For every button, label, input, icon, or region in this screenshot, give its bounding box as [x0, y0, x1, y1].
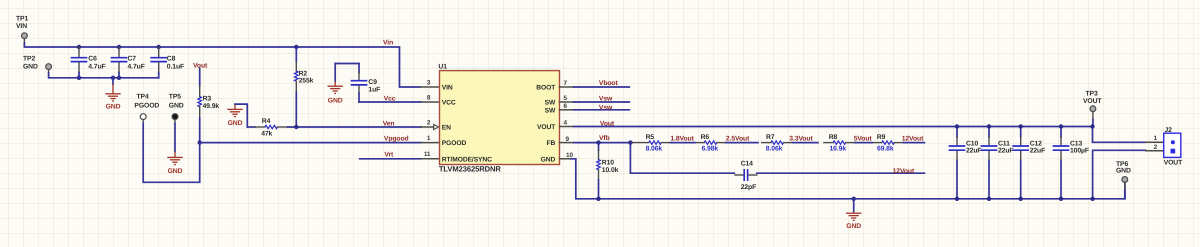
- svg-text:R4: R4: [262, 118, 271, 125]
- capacitor C10: [956, 127, 958, 138]
- svg-text:RT/MODE/SYNC: RT/MODE/SYNC: [442, 156, 492, 163]
- junction GND-R10: [596, 197, 600, 201]
- svg-text:Vfb: Vfb: [599, 135, 610, 142]
- wire TP6 to GND rail: [1124, 191, 1126, 199]
- svg-text:VCC: VCC: [442, 100, 456, 107]
- resistor R8: [824, 142, 833, 144]
- pin 11 stub RT: [421, 158, 440, 160]
- ground (input rail): [105, 84, 120, 101]
- svg-text:J2: J2: [1165, 127, 1173, 134]
- svg-text:10.0k: 10.0k: [602, 167, 619, 174]
- svg-text:TP2: TP2: [23, 55, 35, 62]
- svg-text:GND: GND: [328, 98, 343, 105]
- svg-text:Vsw: Vsw: [599, 104, 613, 111]
- svg-text:FB: FB: [546, 140, 555, 147]
- svg-text:1.8Vout: 1.8Vout: [670, 135, 694, 142]
- wire C14 to 12Vout: [757, 172, 925, 174]
- svg-text:Vboot: Vboot: [599, 80, 619, 87]
- svg-text:69.8k: 69.8k: [877, 145, 894, 152]
- resistor R5: [631, 142, 649, 144]
- capacitor C13: [1060, 127, 1062, 138]
- test point TP2: [46, 64, 52, 70]
- svg-text:GND: GND: [106, 104, 121, 111]
- pin 8 stub VCC: [421, 101, 440, 103]
- connector J2: [1164, 133, 1181, 157]
- svg-text:R6: R6: [701, 134, 710, 141]
- resistor R6: [695, 142, 704, 144]
- wire FB net: [574, 142, 632, 144]
- svg-text:2.5Vout: 2.5Vout: [726, 135, 750, 142]
- junction FB-R10: [596, 140, 600, 144]
- capacitor C6: [78, 47, 80, 57]
- svg-text:8: 8: [427, 94, 431, 101]
- pin 10 stub GND: [560, 158, 572, 160]
- wire Vout rail: [574, 127, 1146, 143]
- wire FB to C14: [630, 143, 734, 174]
- pin 2 input glyph: [434, 124, 439, 129]
- svg-text:Vout: Vout: [600, 120, 615, 127]
- test point TP1: [22, 33, 28, 39]
- junction FB-C14: [628, 140, 632, 144]
- junction GND rail - ground symbol: [852, 197, 856, 201]
- svg-text:VOUT: VOUT: [1164, 160, 1183, 167]
- svg-text:1: 1: [427, 135, 431, 142]
- wire PGOOD net: [200, 142, 421, 144]
- svg-text:2: 2: [1154, 144, 1158, 151]
- svg-text:C6: C6: [88, 55, 97, 62]
- svg-text:VOUT: VOUT: [1083, 98, 1102, 105]
- wire Vout to R3: [199, 68, 201, 86]
- svg-text:5Vout: 5Vout: [854, 135, 873, 142]
- svg-text:R3: R3: [203, 96, 212, 103]
- svg-text:6.98k: 6.98k: [702, 145, 719, 152]
- svg-text:22pF: 22pF: [741, 184, 756, 191]
- capacitor C14: [735, 174, 743, 176]
- svg-text:49.9k: 49.9k: [203, 103, 220, 110]
- pin 2 stub EN: [421, 126, 434, 128]
- svg-text:22uF: 22uF: [1030, 148, 1045, 155]
- svg-text:PGOOD: PGOOD: [134, 103, 159, 110]
- svg-text:C7: C7: [128, 55, 137, 62]
- svg-text:GND: GND: [541, 156, 556, 163]
- svg-text:5: 5: [564, 95, 568, 102]
- wire TP4 lead: [142, 120, 144, 124]
- junction Vout-TP3: [1090, 124, 1094, 128]
- wire J2 pin2 to GND rail: [1093, 150, 1146, 199]
- svg-text:Vrt: Vrt: [384, 151, 394, 158]
- resistor R7: [762, 142, 771, 144]
- svg-text:BOOT: BOOT: [536, 85, 556, 92]
- junction VIN-R2: [294, 45, 298, 49]
- svg-text:R5: R5: [646, 134, 655, 141]
- svg-text:8.06k: 8.06k: [766, 145, 783, 152]
- svg-text:EN: EN: [442, 125, 451, 132]
- svg-text:R10: R10: [602, 159, 614, 166]
- test point TP4: [140, 114, 146, 120]
- svg-text:8.06k: 8.06k: [646, 145, 663, 152]
- svg-text:16.9k: 16.9k: [830, 145, 847, 152]
- junction GND-C6: [77, 76, 81, 80]
- wire Vsw (6): [574, 109, 630, 111]
- test point TP5: [172, 114, 178, 120]
- svg-text:255k: 255k: [299, 78, 314, 85]
- pin 4 stub VOUT: [560, 126, 574, 128]
- svg-text:TP3: TP3: [1086, 90, 1098, 97]
- svg-text:0.1uF: 0.1uF: [167, 63, 184, 70]
- svg-text:3.3Vout: 3.3Vout: [789, 135, 813, 142]
- capacitor C12: [1020, 127, 1022, 138]
- wire TP4 to PGOOD node: [143, 124, 200, 183]
- ground (R4): [227, 104, 242, 117]
- resistor R4: [247, 126, 255, 128]
- wire VIN rail: [24, 43, 420, 87]
- wire ground stem (input): [112, 78, 114, 84]
- svg-text:1: 1: [1154, 135, 1158, 142]
- svg-text:GND: GND: [1116, 168, 1131, 175]
- op-amp U1 TLVM23625RDNR body: [440, 71, 560, 165]
- svg-text:C8: C8: [167, 55, 176, 62]
- svg-text:C11: C11: [998, 140, 1010, 147]
- svg-text:Vin: Vin: [383, 39, 393, 46]
- capacitor C8: [158, 47, 160, 57]
- svg-text:C14: C14: [741, 161, 753, 168]
- pin 1 stub PGOOD: [421, 142, 440, 144]
- pin 7 stub BOOT: [560, 86, 574, 88]
- svg-text:6: 6: [564, 103, 568, 110]
- wire RT net: [360, 158, 421, 160]
- resistor R3: [198, 97, 202, 107]
- ground (C9): [328, 81, 343, 93]
- svg-text:TLVM23625RDNR: TLVM23625RDNR: [439, 165, 501, 174]
- wire 5Vout: [855, 142, 872, 144]
- test point TP3: [1090, 106, 1096, 112]
- svg-text:TP5: TP5: [169, 94, 181, 101]
- ground (output rail): [846, 212, 861, 221]
- wire TP5 to ground: [174, 124, 176, 152]
- junction GND-C7: [117, 76, 121, 80]
- wire EN net: [288, 126, 421, 128]
- svg-text:12Vout: 12Vout: [902, 135, 924, 142]
- svg-text:GND: GND: [23, 63, 38, 70]
- svg-text:4.7uF: 4.7uF: [128, 63, 145, 70]
- svg-text:R8: R8: [829, 134, 838, 141]
- svg-text:11: 11: [424, 151, 431, 158]
- svg-text:U1: U1: [438, 64, 447, 71]
- wire input GND rail: [49, 73, 159, 78]
- wire 2.5Vout: [726, 142, 758, 144]
- svg-text:TP4: TP4: [137, 94, 149, 101]
- junction VIN-C6: [77, 45, 81, 49]
- wire 3.3Vout: [793, 142, 818, 144]
- pin 3 stub VIN: [420, 86, 440, 88]
- junction EN-R2: [294, 125, 298, 129]
- wire TP6 lead: [1124, 182, 1126, 190]
- svg-text:GND: GND: [228, 120, 243, 127]
- svg-text:R7: R7: [766, 134, 775, 141]
- wire TP5 lead: [174, 120, 176, 124]
- resistor R2: [295, 47, 297, 62]
- pin 1 stub J2: [1146, 141, 1164, 143]
- wire Vboot: [574, 86, 630, 88]
- svg-text:Vsw: Vsw: [599, 95, 613, 102]
- wire TP1 lead: [23, 39, 25, 43]
- svg-text:7: 7: [564, 80, 568, 87]
- wire ground stem (output): [853, 199, 855, 212]
- wire 1.8Vout: [671, 142, 696, 144]
- wire Vsw (5): [574, 101, 630, 103]
- wire VCC net: [358, 93, 360, 102]
- capacitor C9: [358, 73, 360, 80]
- svg-text:VOUT: VOUT: [537, 124, 556, 131]
- capacitor C11: [988, 127, 990, 138]
- svg-text:VIN: VIN: [16, 23, 27, 30]
- svg-text:Vpgood: Vpgood: [384, 136, 409, 143]
- pin 9 stub FB: [560, 142, 574, 144]
- wire R4 ground L: [235, 104, 247, 127]
- svg-text:9: 9: [566, 136, 570, 143]
- pin 2 stub J2: [1146, 150, 1164, 152]
- svg-text:3: 3: [427, 79, 431, 86]
- svg-text:Vcc: Vcc: [384, 96, 396, 103]
- resistor R9: [873, 142, 882, 144]
- svg-text:22uF: 22uF: [966, 148, 981, 155]
- svg-text:TP1: TP1: [16, 16, 28, 23]
- pin 6 stub SW: [560, 109, 574, 111]
- svg-text:C13: C13: [1070, 140, 1082, 147]
- wire TP3 to Vout rail: [1092, 120, 1094, 127]
- svg-text:GND: GND: [168, 168, 183, 175]
- svg-text:2: 2: [427, 119, 431, 126]
- svg-text:SW: SW: [545, 100, 556, 107]
- junction VIN-C7: [117, 45, 121, 49]
- svg-text:VIN: VIN: [442, 85, 453, 92]
- svg-text:4: 4: [564, 120, 568, 127]
- svg-text:Ven: Ven: [383, 120, 395, 127]
- junction GND-symbol: [111, 76, 115, 80]
- svg-text:R9: R9: [877, 134, 886, 141]
- svg-text:12Vout: 12Vout: [893, 168, 915, 175]
- wire C9 ground L: [358, 64, 360, 73]
- resistor R10: [598, 143, 600, 150]
- capacitor C7: [118, 47, 120, 57]
- wire GND bottom rail: [571, 159, 1125, 199]
- junction VIN-C8: [157, 45, 161, 49]
- svg-text:GND: GND: [169, 103, 184, 110]
- wire 12Vout (ladder end): [904, 142, 925, 144]
- svg-text:C9: C9: [368, 79, 377, 86]
- svg-text:1uF: 1uF: [368, 87, 380, 94]
- junction GND-J2: [1090, 197, 1094, 201]
- svg-text:C12: C12: [1030, 140, 1042, 147]
- ground (TP5): [167, 152, 182, 165]
- svg-text:SW: SW: [545, 107, 556, 114]
- svg-text:R2: R2: [299, 70, 308, 77]
- junction PGOOD node: [198, 140, 202, 144]
- wire TP2 lead: [48, 70, 50, 73]
- svg-text:C10: C10: [966, 140, 978, 147]
- wire TP3 lead: [1092, 112, 1094, 120]
- svg-text:GND: GND: [846, 223, 861, 230]
- svg-text:4.7uF: 4.7uF: [88, 63, 105, 70]
- svg-text:PGOOD: PGOOD: [442, 140, 467, 147]
- pin 5 stub SW: [560, 101, 574, 103]
- test point TP6: [1122, 177, 1128, 183]
- svg-text:22uF: 22uF: [998, 148, 1013, 155]
- svg-text:47k: 47k: [261, 131, 272, 138]
- svg-text:100µF: 100µF: [1070, 148, 1089, 155]
